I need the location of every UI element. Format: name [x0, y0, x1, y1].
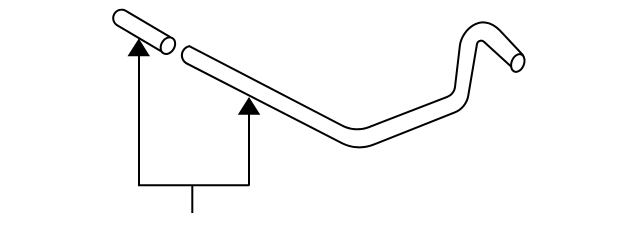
main pipe open end ellipse	[509, 52, 527, 74]
arrow 1 (left, pointing at small pipe stub)	[128, 39, 151, 186]
arrow 2 (pointing at main pipe)	[238, 97, 260, 185]
leader stub below bracket	[191, 185, 193, 213]
bracket joining the two arrows	[138, 184, 250, 186]
small pipe stub body (upper left)	[122, 18, 166, 44]
main pipe bottom edge	[186, 41, 512, 148]
main pipe rounded start cap	[182, 46, 190, 63]
small pipe open end ellipse	[158, 35, 178, 57]
main pipe top edge	[190, 22, 523, 129]
